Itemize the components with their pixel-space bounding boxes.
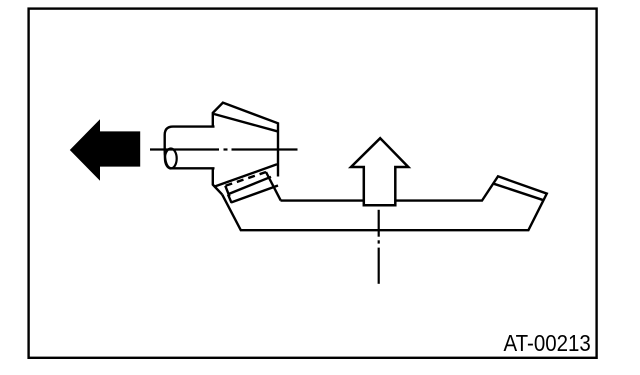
hidden dashed line B: [226, 172, 267, 186]
shaft end face ellipse: [165, 149, 177, 169]
band left cap: [225, 186, 229, 197]
horizontal dash-dot centerline: [150, 148, 298, 150]
outline: [213, 103, 278, 177]
bar top edge: [222, 176, 547, 230]
up arrow (hollow): [351, 138, 408, 205]
arm right edge: [266, 172, 281, 200]
lever bar (right horizontal part): [222, 176, 547, 230]
vertical dash-dot centerline: [378, 210, 380, 284]
band bottom edge D: [231, 186, 278, 203]
shaft: [165, 127, 215, 169]
top inner line: [214, 114, 277, 131]
tip inner line: [494, 184, 544, 200]
lever blade band under gear: [225, 172, 280, 203]
bottom inner line A: [214, 164, 277, 187]
gear cone: [213, 103, 278, 195]
band top edge C: [228, 177, 271, 195]
svg-text:AT-00213: AT-00213: [504, 330, 591, 357]
black left arrow: [70, 119, 140, 181]
